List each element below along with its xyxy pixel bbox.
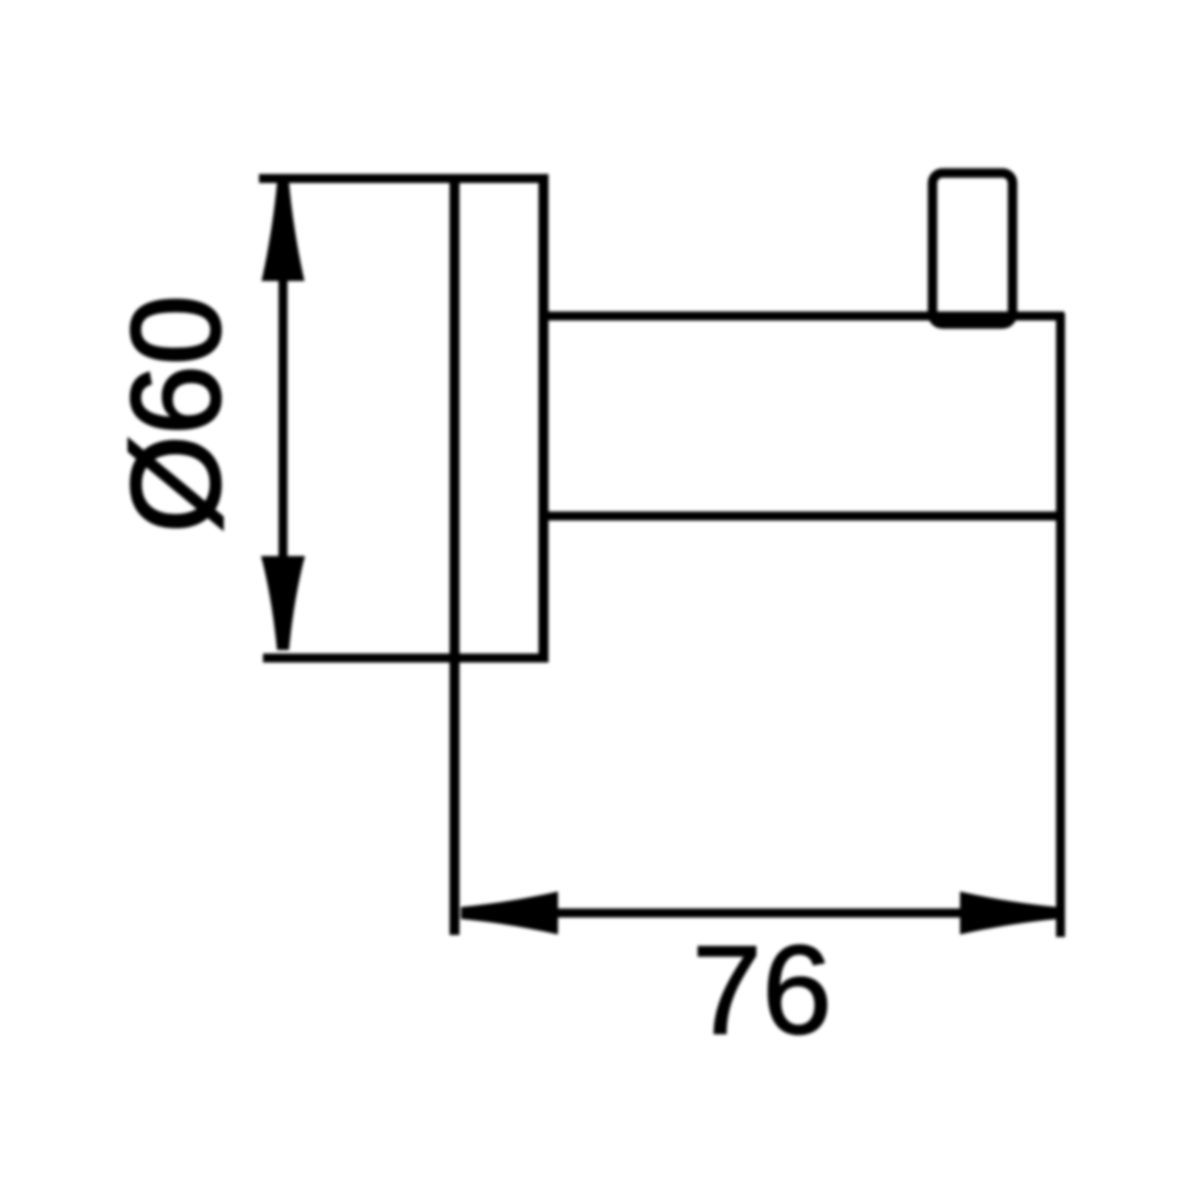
- arm bottom edge: [540, 512, 1064, 521]
- left arrowhead: [461, 892, 558, 935]
- wall plate right edge: [539, 176, 549, 660]
- wall line (plate left edge, extended down as extension line): [450, 176, 460, 935]
- arm top edge: [540, 312, 1064, 321]
- hook peg: [933, 173, 1013, 324]
- svg-text:76: 76: [692, 920, 832, 1061]
- horizontal dimension line: [555, 909, 960, 918]
- right arrowhead: [960, 892, 1057, 935]
- top arrowhead: [262, 183, 305, 281]
- arm right edge, extended down as extension line: [1056, 313, 1065, 937]
- svg-text:Ø60: Ø60: [106, 295, 247, 533]
- wall plate bottom edge with extension: [263, 654, 549, 663]
- wall plate top edge with extension: [259, 174, 549, 183]
- bottom arrowhead: [261, 556, 305, 650]
- vertical dimension line: [279, 272, 288, 562]
